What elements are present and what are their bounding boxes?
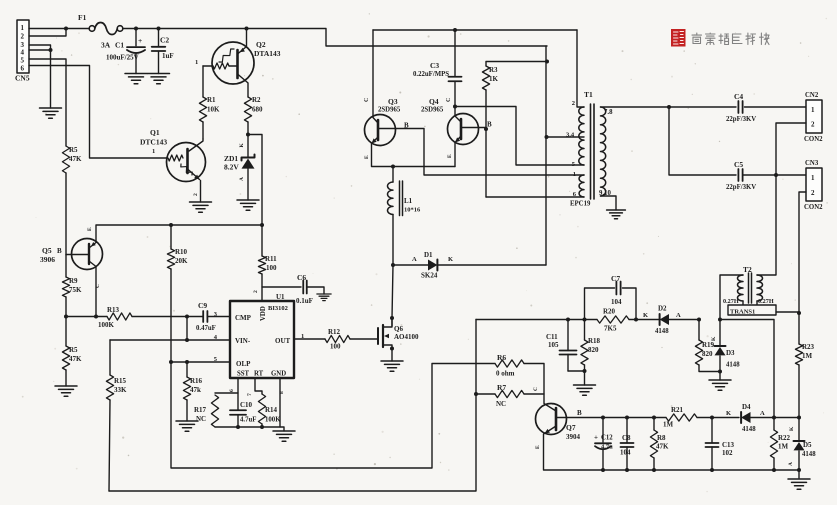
junction xyxy=(625,416,629,420)
svg-text:D1: D1 xyxy=(424,251,433,259)
svg-text:2: 2 xyxy=(811,121,815,129)
junction xyxy=(185,360,189,364)
capacitor C5 xyxy=(726,160,806,191)
svg-text:R18: R18 xyxy=(588,337,601,345)
svg-text:R1: R1 xyxy=(207,96,216,104)
svg-text:NC: NC xyxy=(196,415,206,423)
svg-text:Q1: Q1 xyxy=(150,128,160,137)
svg-text:SK24: SK24 xyxy=(421,272,438,280)
svg-text:R7: R7 xyxy=(497,383,506,392)
wire Q7 base rail xyxy=(567,417,667,419)
junction xyxy=(797,416,801,420)
svg-text:104: 104 xyxy=(620,449,631,457)
svg-text:2: 2 xyxy=(811,189,815,197)
svg-text:820: 820 xyxy=(702,350,713,358)
wire R15 bus B xyxy=(109,320,476,492)
transistor Q2 xyxy=(195,40,281,84)
company name text xyxy=(692,33,769,45)
junction xyxy=(49,48,53,52)
wire feedback rail xyxy=(476,319,597,321)
wire CN3 pin2 riser xyxy=(799,192,806,313)
junction xyxy=(545,135,549,139)
wire OLP rail xyxy=(171,361,230,363)
connector CN2 xyxy=(804,92,823,143)
svg-text:BI3102: BI3102 xyxy=(268,305,288,312)
svg-text:1: 1 xyxy=(811,106,815,114)
svg-text:2SD965: 2SD965 xyxy=(378,107,401,114)
svg-text:4148: 4148 xyxy=(655,328,669,335)
transistor Q7 xyxy=(535,404,582,450)
capacitor C7 xyxy=(585,274,637,320)
wire left vertical xyxy=(65,173,67,255)
capacitor C10 xyxy=(230,401,256,427)
svg-text:1: 1 xyxy=(152,148,155,155)
svg-text:RT: RT xyxy=(254,371,264,378)
svg-text:8: 8 xyxy=(279,391,285,394)
resistor R22 xyxy=(770,418,790,471)
svg-text:1: 1 xyxy=(573,171,576,178)
svg-text:100: 100 xyxy=(266,264,277,272)
resistor R17 xyxy=(194,395,219,427)
svg-text:DTC143: DTC143 xyxy=(140,138,167,147)
resistor R15 xyxy=(106,340,127,491)
svg-text:4.7u: 4.7u xyxy=(601,444,613,451)
ground xyxy=(125,74,147,84)
svg-text:6: 6 xyxy=(21,65,25,73)
op-amp U1 BI3102 xyxy=(214,293,305,378)
svg-text:1K: 1K xyxy=(489,75,499,83)
resistor R14 xyxy=(258,394,281,427)
wire Q6 drain xyxy=(391,318,393,326)
transistor Q5 xyxy=(40,227,103,288)
capacitor C2 xyxy=(152,29,174,74)
wire T1 tap 3,4 xyxy=(547,136,585,138)
svg-text:1: 1 xyxy=(195,59,198,66)
diode D3 xyxy=(711,320,740,381)
svg-text:C: C xyxy=(446,98,452,102)
svg-text:47K: 47K xyxy=(69,155,82,163)
svg-text:0.22uF/MPS: 0.22uF/MPS xyxy=(413,71,449,78)
svg-text:E: E xyxy=(535,445,541,449)
svg-text:R15: R15 xyxy=(114,377,127,385)
junction xyxy=(474,392,478,396)
wire top rail from fuse xyxy=(123,29,547,47)
junction xyxy=(652,416,656,420)
wire Q3 collector to line C xyxy=(372,30,374,117)
svg-text:CON2: CON2 xyxy=(804,204,823,211)
resistor R9 xyxy=(62,255,82,317)
wire Q4 collector xyxy=(454,107,456,116)
svg-text:A: A xyxy=(760,410,765,417)
svg-text:CON2: CON2 xyxy=(804,136,823,143)
svg-text:OLP: OLP xyxy=(236,360,251,368)
svg-text:E: E xyxy=(87,227,93,231)
svg-text:E: E xyxy=(447,154,453,158)
wire CMP-VIN link xyxy=(186,317,188,341)
svg-text:Q4: Q4 xyxy=(429,97,439,106)
svg-text:C8: C8 xyxy=(622,434,631,442)
svg-text:4148: 4148 xyxy=(802,451,816,458)
svg-text:2: 2 xyxy=(572,100,575,107)
wire rail to D4 node xyxy=(720,320,774,418)
svg-text:C9: C9 xyxy=(198,301,207,310)
svg-text:R13: R13 xyxy=(107,306,120,314)
junction xyxy=(453,28,457,32)
capacitor C9 xyxy=(196,301,230,332)
connector CN3 xyxy=(804,160,823,211)
svg-text:10*16: 10*16 xyxy=(404,207,421,214)
svg-text:C: C xyxy=(364,98,370,102)
svg-text:100uF/25V: 100uF/25V xyxy=(106,54,139,62)
wire T1 secondary bottom xyxy=(601,196,617,210)
junction xyxy=(246,133,250,137)
capacitor C8 xyxy=(620,418,634,471)
svg-text:R6: R6 xyxy=(497,353,506,362)
svg-text:F1: F1 xyxy=(78,13,87,22)
svg-text:B: B xyxy=(487,121,492,129)
junction xyxy=(169,223,173,227)
svg-text:1uF: 1uF xyxy=(162,52,174,60)
svg-text:K: K xyxy=(789,426,795,431)
ground xyxy=(176,421,198,431)
svg-text:+: + xyxy=(594,434,598,442)
ground xyxy=(55,386,77,396)
diode D4 xyxy=(726,403,774,433)
svg-text:2: 2 xyxy=(193,193,199,196)
svg-text:C7: C7 xyxy=(611,274,620,283)
svg-text:R12: R12 xyxy=(328,328,341,336)
resistor R1 xyxy=(199,66,220,139)
svg-text:100K: 100K xyxy=(265,417,281,424)
wire OUT pin xyxy=(294,338,325,340)
ground xyxy=(381,361,403,371)
wire C11 to R18 bottom xyxy=(568,370,585,372)
wire T1 secondary top xyxy=(601,106,807,108)
ground xyxy=(607,210,626,219)
junction xyxy=(260,425,264,429)
svg-text:7K5: 7K5 xyxy=(604,325,617,333)
resistor R7 xyxy=(476,383,544,408)
wire Q4 emitter xyxy=(454,143,456,167)
ground xyxy=(574,385,596,395)
transistor Q6 AO4100 xyxy=(378,318,419,349)
svg-text:R23: R23 xyxy=(802,343,815,351)
svg-text:1M: 1M xyxy=(778,443,789,451)
ground xyxy=(237,200,259,210)
svg-text:0.47uF: 0.47uF xyxy=(196,325,216,332)
junction xyxy=(774,173,778,177)
wire C5 branch xyxy=(669,107,736,175)
resistor R16 xyxy=(183,362,202,421)
transformer T2 xyxy=(723,265,774,305)
svg-text:R5: R5 xyxy=(69,346,78,354)
transistor Q4 xyxy=(421,97,492,158)
svg-text:+: + xyxy=(138,36,142,45)
svg-text:0.27H: 0.27H xyxy=(723,298,739,305)
junction xyxy=(260,223,264,227)
svg-text:CN2: CN2 xyxy=(805,92,819,99)
wire emitter rail to L1 xyxy=(392,167,394,183)
svg-text:B: B xyxy=(57,247,62,255)
resistor R8 xyxy=(650,418,669,471)
svg-text:100: 100 xyxy=(330,343,341,351)
svg-text:T1: T1 xyxy=(584,90,593,99)
wire OLP bus A xyxy=(171,362,495,468)
diode D5 xyxy=(788,418,816,479)
ground xyxy=(148,74,170,84)
svg-text:1M: 1M xyxy=(802,352,813,360)
wire T2 right coil to C5 node xyxy=(757,175,776,275)
junction xyxy=(652,468,656,472)
wire VIN- rail xyxy=(110,339,230,341)
svg-text:R21: R21 xyxy=(671,406,684,414)
junction xyxy=(64,315,68,319)
svg-text:R20: R20 xyxy=(603,308,616,316)
junction xyxy=(634,318,638,322)
svg-text:GND: GND xyxy=(271,371,286,378)
svg-text:R5: R5 xyxy=(69,146,78,154)
wire pin6 to Q1 base xyxy=(29,66,167,159)
junction xyxy=(157,27,161,31)
svg-text:K: K xyxy=(711,336,717,341)
svg-text:CN5: CN5 xyxy=(15,74,30,83)
ground xyxy=(317,294,331,301)
junction xyxy=(245,27,249,31)
resistor R2 xyxy=(244,83,263,135)
svg-text:0.1uF: 0.1uF xyxy=(296,297,313,305)
svg-text:C5: C5 xyxy=(734,160,743,169)
transistor Q1 xyxy=(140,128,206,182)
wire T2 left coil to node xyxy=(720,275,743,320)
svg-text:A: A xyxy=(676,312,681,319)
svg-text:6: 6 xyxy=(229,389,235,392)
resistor R3 xyxy=(482,62,547,131)
junction xyxy=(484,127,488,131)
svg-text:8.2V: 8.2V xyxy=(224,163,239,172)
wire Q3 base drop xyxy=(396,129,585,176)
resistor R20 xyxy=(597,308,629,333)
svg-text:K: K xyxy=(239,143,245,148)
transformer TRANS1 body xyxy=(728,305,776,316)
svg-text:Q7: Q7 xyxy=(566,423,576,432)
resistor R12 xyxy=(325,328,378,351)
capacitor C11 xyxy=(546,320,577,372)
svg-text:C2: C2 xyxy=(160,36,169,45)
svg-text:R10: R10 xyxy=(175,248,188,256)
junction xyxy=(391,165,395,169)
wire L1 to D1 node to Q6 xyxy=(392,215,393,319)
capacitor C3 xyxy=(413,30,462,107)
wire T1 pin2 xyxy=(577,30,584,107)
svg-text:A: A xyxy=(412,256,417,263)
svg-text:2: 2 xyxy=(21,33,25,41)
svg-text:R22: R22 xyxy=(778,434,791,442)
svg-text:Q2: Q2 xyxy=(256,40,266,49)
capacitor C12 xyxy=(594,418,613,471)
svg-text:CN3: CN3 xyxy=(805,160,819,167)
svg-text:47K: 47K xyxy=(69,355,82,363)
svg-text:R16: R16 xyxy=(190,377,203,385)
svg-text:4: 4 xyxy=(21,49,25,57)
wire TRANS1 to CN3 riser xyxy=(776,311,799,313)
svg-text:E: E xyxy=(364,155,370,159)
capacitor C6 xyxy=(262,273,324,305)
company logo seal xyxy=(671,29,686,47)
svg-text:R9: R9 xyxy=(69,277,78,285)
resistor R13 xyxy=(98,306,132,329)
svg-text:R14: R14 xyxy=(265,406,278,414)
junction xyxy=(710,468,714,472)
junction xyxy=(601,416,605,420)
svg-text:C12: C12 xyxy=(601,435,613,442)
svg-text:7: 7 xyxy=(247,393,253,396)
svg-text:10K: 10K xyxy=(207,106,220,114)
svg-text:102: 102 xyxy=(722,449,733,457)
svg-text:75K: 75K xyxy=(69,286,82,294)
wire D4 node to R23 xyxy=(774,417,799,419)
svg-text:NC: NC xyxy=(496,400,506,408)
svg-text:SST: SST xyxy=(237,371,250,378)
junction xyxy=(185,315,189,319)
svg-text:U1: U1 xyxy=(276,293,285,301)
svg-text:4.7uF: 4.7uF xyxy=(240,417,256,424)
svg-text:K: K xyxy=(448,256,453,263)
svg-text:22pF/3KV: 22pF/3KV xyxy=(726,116,756,123)
svg-text:R17: R17 xyxy=(194,406,207,414)
svg-text:OUT: OUT xyxy=(275,337,291,345)
wire Q5 emitter to VDD rail xyxy=(96,225,262,242)
junction xyxy=(718,370,722,374)
ground xyxy=(190,202,212,212)
svg-text:C3: C3 xyxy=(430,61,439,70)
svg-text:3A: 3A xyxy=(101,41,111,50)
junction xyxy=(236,425,240,429)
svg-text:1M: 1M xyxy=(663,421,674,429)
junction xyxy=(718,318,722,322)
junction xyxy=(390,316,394,320)
wire D1 cathode riser xyxy=(545,46,547,265)
capacitor C1 xyxy=(101,29,145,74)
ground xyxy=(788,479,810,489)
svg-text:EPC19: EPC19 xyxy=(570,201,591,208)
junction xyxy=(94,315,98,319)
svg-text:CMP: CMP xyxy=(235,314,252,322)
svg-text:C13: C13 xyxy=(722,441,735,449)
svg-text:R3: R3 xyxy=(489,66,498,74)
svg-text:VDD: VDD xyxy=(260,306,267,321)
svg-text:R2: R2 xyxy=(252,96,261,104)
svg-text:L1: L1 xyxy=(404,197,413,205)
svg-text:3904: 3904 xyxy=(566,433,581,441)
transformer T1 xyxy=(566,90,613,208)
svg-text:C1: C1 xyxy=(115,41,124,50)
wire pin2 xyxy=(29,29,66,37)
svg-text:C6: C6 xyxy=(297,273,306,282)
wire Q2 emitter to rail xyxy=(246,29,248,47)
ground xyxy=(40,108,62,118)
junction xyxy=(772,416,776,420)
wire Q1 emitter xyxy=(193,181,201,203)
junction xyxy=(772,468,776,472)
wire R13 to C9 xyxy=(132,316,203,318)
diode D1 SK24 xyxy=(393,251,546,280)
svg-text:2: 2 xyxy=(253,290,259,293)
svg-text:7.8: 7.8 xyxy=(604,109,613,116)
junction xyxy=(169,360,173,364)
junction xyxy=(390,347,394,351)
wire pin1 to fuse xyxy=(29,28,92,30)
resistor R21 xyxy=(663,406,739,429)
svg-text:0.27H: 0.27H xyxy=(758,298,774,305)
svg-text:2SD965: 2SD965 xyxy=(421,107,444,114)
wire ZD1 node to VDD rail xyxy=(248,135,262,226)
svg-text:1: 1 xyxy=(811,174,815,182)
svg-text:5: 5 xyxy=(21,57,25,65)
resistor R18 xyxy=(581,320,601,386)
svg-text:104: 104 xyxy=(611,298,622,306)
svg-text:Q6: Q6 xyxy=(394,325,403,333)
resistor R19 xyxy=(695,320,720,372)
svg-text:33K: 33K xyxy=(114,386,127,394)
wire Q5 collector xyxy=(95,267,97,317)
svg-text:47k: 47k xyxy=(190,386,201,394)
ground xyxy=(709,380,731,390)
wire RT pin xyxy=(247,378,262,396)
junction xyxy=(566,318,570,322)
junction xyxy=(185,338,189,342)
wire SST pin xyxy=(229,378,238,410)
svg-text:DTA143: DTA143 xyxy=(254,49,281,58)
svg-text:1: 1 xyxy=(21,24,25,32)
svg-text:680: 680 xyxy=(252,106,263,114)
junction xyxy=(583,318,587,322)
capacitor C4 xyxy=(726,92,756,123)
junction xyxy=(601,468,605,472)
svg-text:AO4100: AO4100 xyxy=(394,333,419,341)
svg-text:R8: R8 xyxy=(657,434,666,442)
junction xyxy=(625,468,629,472)
svg-text:TRANS1: TRANS1 xyxy=(730,309,755,316)
svg-text:20K: 20K xyxy=(175,257,188,265)
svg-text:T2: T2 xyxy=(743,265,752,274)
svg-text:A: A xyxy=(239,177,245,181)
svg-text:100K: 100K xyxy=(98,321,115,329)
svg-text:820: 820 xyxy=(588,346,599,354)
svg-text:0 ohm: 0 ohm xyxy=(496,370,515,378)
svg-text:22pF/3KV: 22pF/3KV xyxy=(726,184,756,191)
svg-text:C4: C4 xyxy=(734,92,743,101)
capacitor C13 xyxy=(706,418,735,471)
junction xyxy=(583,369,587,373)
svg-text:R19: R19 xyxy=(702,341,715,349)
wire R13 rail xyxy=(66,316,107,318)
svg-text:B: B xyxy=(577,409,582,417)
svg-text:D2: D2 xyxy=(658,305,667,313)
wire R20 to D2 xyxy=(629,319,660,321)
junction xyxy=(64,27,68,31)
wire pin5 to R5 xyxy=(29,59,66,146)
resistor R23 xyxy=(795,313,814,417)
connector CN5 xyxy=(15,20,30,83)
svg-text:Q5: Q5 xyxy=(42,246,52,255)
wire SST to R17 xyxy=(215,392,238,394)
svg-text:D4: D4 xyxy=(742,403,751,411)
wire pin3 xyxy=(29,45,51,108)
wire Q3 emitter to common rail xyxy=(372,144,456,167)
junction xyxy=(134,27,138,31)
fuse F1 xyxy=(78,13,123,35)
resistor R5 xyxy=(62,317,82,387)
